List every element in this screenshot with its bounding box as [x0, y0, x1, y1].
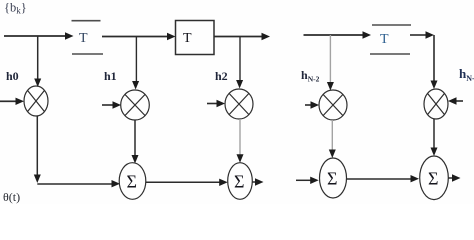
- wire S3 to S4: [347, 178, 412, 180]
- svg-text:h0: h0: [6, 69, 19, 83]
- svg-text:θ(t): θ(t): [3, 190, 20, 204]
- multiplier M5 (hN-1): [424, 89, 448, 119]
- coefficient arrow into M5 from right: [456, 100, 463, 102]
- wire tap down to multiplier h0: [37, 36, 39, 79]
- coefficient arrow into M2: [102, 104, 114, 106]
- svg-text:hN-: hN-: [459, 66, 474, 83]
- svg-text:Σ: Σ: [234, 172, 244, 192]
- wire M2 output down to S1: [134, 120, 136, 156]
- svg-text:Σ: Σ: [327, 169, 337, 189]
- multiplier M2 (h1): [121, 90, 150, 120]
- svg-text:hN-2: hN-2: [301, 68, 320, 84]
- wire tap down to multiplier h1: [135, 37, 137, 83]
- wire S1 to S2: [146, 181, 220, 183]
- wire M3 output down to S2: [239, 119, 241, 156]
- wire tap down to multiplier h2: [239, 37, 241, 82]
- svg-text:T: T: [380, 32, 389, 47]
- coefficient arrow into M3: [207, 103, 217, 105]
- svg-text:{bk}: {bk}: [4, 1, 27, 16]
- svg-text:h1: h1: [104, 69, 117, 83]
- wire corner down to multiplier hN-1: [433, 35, 435, 82]
- wire into S3 after break: [296, 179, 311, 181]
- wire tap down to multiplier hN-2: [329, 35, 331, 84]
- wire S2 short output arrow: [253, 181, 257, 183]
- multiplier M3 (h2): [225, 89, 253, 119]
- multiplier M1 (h0): [24, 86, 48, 116]
- svg-text:h2: h2: [215, 69, 228, 83]
- delay T2 (box): [176, 21, 215, 55]
- wire M1 output down to corner: [36, 116, 38, 176]
- delay T1 (open box): [72, 21, 104, 54]
- sum S2: [228, 163, 253, 200]
- svg-text:Σ: Σ: [127, 172, 137, 192]
- wire S4 short output arrow: [449, 177, 454, 179]
- sum S3: [320, 158, 347, 198]
- svg-text:Σ: Σ: [428, 168, 438, 188]
- multiplier M4 (hN-2): [319, 90, 347, 120]
- delay T3 (open box): [370, 25, 411, 54]
- coefficient arrow into M4: [305, 104, 312, 106]
- sum S4: [420, 156, 449, 200]
- wire right section into T3: [304, 34, 364, 36]
- svg-text:T: T: [79, 31, 88, 46]
- wire T2 to break: [214, 36, 262, 38]
- wire M4 output down to S3: [331, 120, 333, 151]
- coefficient arrow into M1: [0, 100, 16, 102]
- wire M5 output down to S4: [433, 119, 435, 149]
- wire T3 output to corner: [410, 34, 426, 36]
- sum S1: [119, 163, 146, 200]
- svg-text:T: T: [183, 31, 192, 46]
- wire corner to sum S1: [37, 183, 112, 185]
- wire T1 to T2: [102, 36, 168, 38]
- wire input line to T1: [4, 35, 66, 37]
